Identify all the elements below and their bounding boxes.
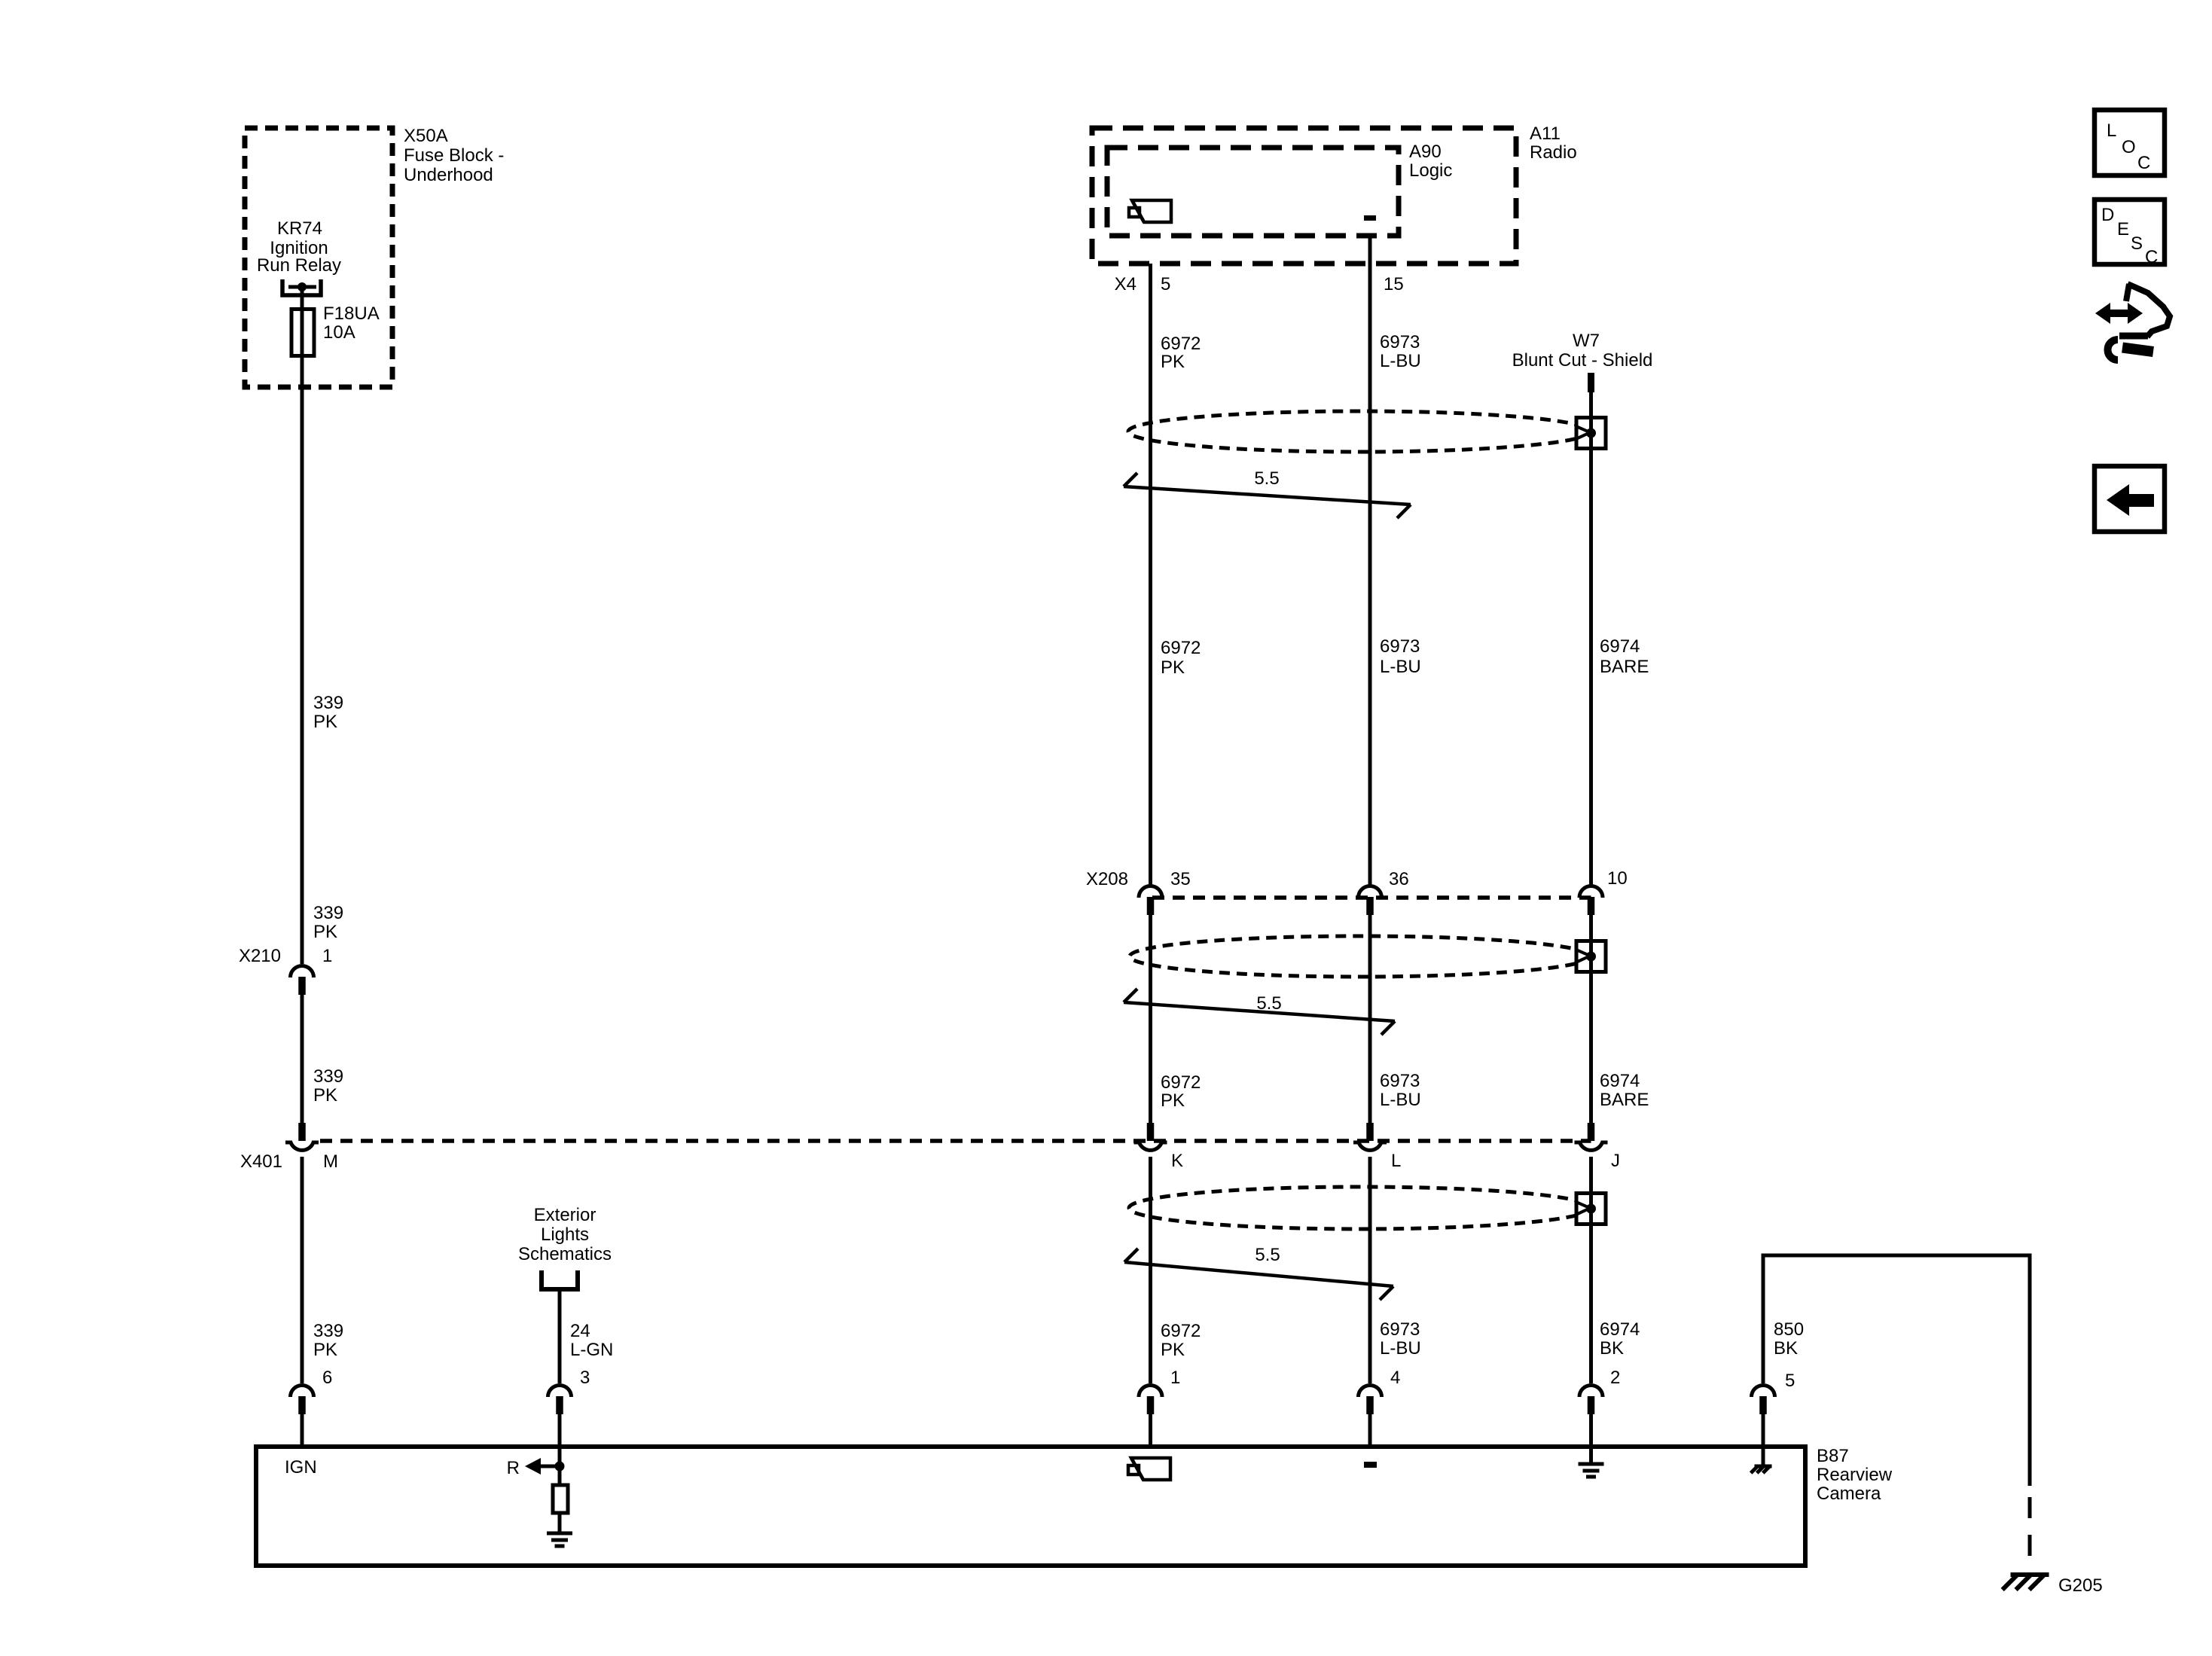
svg-text:W7: W7 [1573,331,1600,351]
svg-text:S: S [2131,233,2143,254]
svg-text:6973: 6973 [1380,636,1420,657]
svg-text:K: K [1171,1151,1183,1171]
svg-text:L-GN: L-GN [570,1340,613,1360]
svg-text:24: 24 [570,1321,590,1341]
svg-text:1: 1 [322,946,332,966]
svg-text:X4: X4 [1115,274,1137,294]
svg-text:3: 3 [580,1368,590,1388]
svg-text:339: 339 [313,1066,343,1087]
svg-text:B87: B87 [1817,1446,1849,1466]
svg-text:6974: 6974 [1600,636,1640,657]
svg-text:Logic: Logic [1409,160,1452,181]
svg-text:L: L [2107,120,2116,141]
svg-text:35: 35 [1170,869,1191,889]
svg-text:Radio: Radio [1530,142,1577,163]
svg-text:BARE: BARE [1600,657,1649,677]
svg-text:PK: PK [313,1085,337,1106]
svg-text:5.5: 5.5 [1255,1245,1280,1265]
svg-text:1: 1 [1170,1368,1180,1388]
svg-text:339: 339 [313,1321,343,1341]
svg-text:D: D [2101,205,2114,225]
svg-text:6972: 6972 [1161,1321,1201,1341]
svg-text:BK: BK [1774,1338,1798,1359]
svg-text:5: 5 [1161,274,1170,294]
svg-text:6: 6 [322,1368,332,1388]
svg-text:Fuse Block -: Fuse Block - [404,145,504,166]
svg-text:6974: 6974 [1600,1319,1640,1340]
svg-text:A11: A11 [1530,124,1561,144]
svg-text:L-BU: L-BU [1380,1338,1421,1359]
svg-text:O: O [2122,137,2136,157]
svg-text:6973: 6973 [1380,1319,1420,1340]
svg-text:Exterior: Exterior [534,1205,596,1225]
svg-text:6972: 6972 [1161,334,1201,354]
svg-text:M: M [323,1151,338,1172]
svg-text:E: E [2117,219,2129,239]
svg-text:Rearview: Rearview [1817,1465,1893,1485]
svg-text:IGN: IGN [285,1457,317,1478]
svg-text:A90: A90 [1409,142,1442,162]
svg-text:L-BU: L-BU [1380,1090,1421,1110]
svg-text:6973: 6973 [1380,1071,1420,1091]
svg-text:L-BU: L-BU [1380,657,1421,677]
svg-text:2: 2 [1610,1368,1620,1388]
svg-text:PK: PK [1161,1340,1185,1360]
svg-text:KR74: KR74 [277,218,322,239]
svg-text:5.5: 5.5 [1254,468,1279,489]
svg-text:F18UA: F18UA [323,303,380,324]
svg-text:X50A: X50A [404,126,448,146]
svg-text:Underhood: Underhood [404,165,493,185]
svg-text:L: L [1391,1151,1401,1171]
svg-text:PK: PK [313,1340,337,1360]
svg-text:PK: PK [1161,352,1185,372]
svg-text:Lights: Lights [541,1224,589,1245]
svg-text:36: 36 [1389,869,1409,889]
svg-text:6973: 6973 [1380,332,1420,352]
svg-text:5: 5 [1785,1371,1795,1391]
svg-text:G205: G205 [2058,1575,2103,1596]
svg-text:X210: X210 [239,946,281,966]
svg-text:J: J [1611,1151,1620,1171]
svg-text:10: 10 [1607,868,1628,889]
svg-text:PK: PK [1161,657,1185,678]
svg-text:4: 4 [1390,1368,1400,1388]
svg-text:Camera: Camera [1817,1484,1881,1504]
svg-text:C: C [2137,153,2150,173]
svg-text:15: 15 [1384,274,1404,294]
svg-text:Blunt Cut - Shield: Blunt Cut - Shield [1512,350,1653,371]
svg-text:850: 850 [1774,1319,1804,1340]
svg-text:6972: 6972 [1161,638,1201,658]
svg-text:X208: X208 [1086,869,1128,889]
svg-text:10A: 10A [323,322,355,343]
svg-text:Schematics: Schematics [518,1244,612,1264]
svg-text:X401: X401 [240,1151,282,1172]
svg-text:Run Relay: Run Relay [257,255,341,276]
svg-text:BARE: BARE [1600,1090,1649,1110]
svg-text:PK: PK [313,922,337,942]
svg-text:6974: 6974 [1600,1071,1640,1091]
svg-text:L-BU: L-BU [1380,351,1421,371]
svg-text:5.5: 5.5 [1256,993,1281,1014]
svg-text:PK: PK [1161,1090,1185,1111]
svg-text:BK: BK [1600,1338,1624,1359]
svg-text:R: R [507,1458,520,1478]
svg-text:PK: PK [313,712,337,732]
svg-text:C: C [2145,247,2158,267]
svg-text:6972: 6972 [1161,1072,1201,1093]
svg-text:339: 339 [313,693,343,713]
svg-text:339: 339 [313,903,343,923]
